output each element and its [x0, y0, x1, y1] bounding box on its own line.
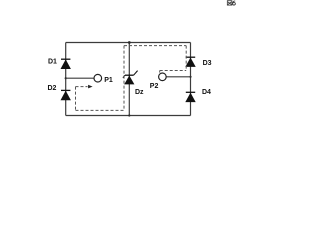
dashed current path: arrow segment toward P1: [76, 86, 88, 88]
junction dot (P2 wire / right branch): [189, 76, 191, 78]
dashed current path: top horizontal: [124, 45, 186, 47]
dashed current path: left loop vertical: [75, 87, 77, 111]
dashed current path: horizontal to P2: [160, 70, 187, 72]
svg-text:D3: D3: [203, 60, 212, 67]
wire bottom bus: [66, 115, 191, 117]
terminal P2: [159, 73, 167, 81]
diode D4: [185, 92, 195, 102]
wire right branch: [190, 43, 192, 116]
junction dot (Dz branch / bottom bus): [128, 114, 130, 116]
wire top bus: [66, 42, 191, 44]
dashed current path: bottom horizontal: [76, 109, 125, 111]
dashed current path: stub down to P2 terminal: [159, 71, 161, 73]
diode D3: [185, 57, 195, 67]
figure label 图6: [227, 1, 232, 5]
wire P2 stub: [166, 76, 190, 78]
dashed current path: right vertical beside D3: [185, 46, 187, 71]
terminal P1: [94, 74, 102, 82]
zener diode Dz: [123, 71, 138, 85]
junction dot (P1 wire / left branch): [65, 77, 67, 79]
dashed current path: middle vertical beside Dz: [123, 46, 125, 111]
arrowhead toward P1: [88, 85, 93, 89]
svg-text:Dz: Dz: [135, 89, 144, 96]
wire P1 stub: [66, 77, 94, 79]
svg-text:D1: D1: [48, 59, 57, 66]
svg-text:P1: P1: [104, 77, 113, 84]
diode D2: [61, 90, 71, 100]
junction dot (top of Dz branch): [128, 41, 131, 44]
wire middle branch (Dz): [128, 43, 130, 116]
svg-text:D4: D4: [202, 89, 211, 96]
diode D1: [61, 59, 71, 69]
svg-text:P2: P2: [150, 83, 159, 90]
svg-text:D2: D2: [48, 85, 57, 92]
wire left branch: [65, 43, 67, 116]
